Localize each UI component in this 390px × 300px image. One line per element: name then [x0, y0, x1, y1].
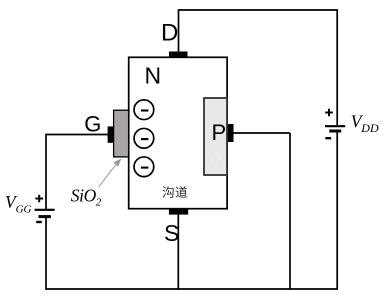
svg-text:S: S	[164, 220, 179, 246]
oxide layer SiO2	[114, 110, 129, 157]
svg-text:GG: GG	[16, 203, 32, 215]
svg-text:2: 2	[96, 197, 102, 209]
terminal tab S	[169, 208, 188, 214]
wire: P contact horizontal	[233, 132, 290, 134]
wire: VDD battery to bottom rail	[336, 131, 338, 289]
svg-text:SiO: SiO	[71, 185, 97, 205]
wire: P branch vertical down	[289, 133, 291, 289]
electron circle 2	[134, 128, 154, 148]
battery VDD plates	[325, 125, 345, 127]
svg-text:P: P	[212, 120, 227, 145]
wire: G horizontal	[46, 134, 109, 136]
battery VGG minus	[36, 221, 42, 223]
wire: VGG battery to bottom rail	[45, 217, 47, 290]
transistor body outline	[129, 57, 227, 208]
wire: D vertical to top rail	[178, 10, 180, 53]
electron circle 3	[134, 157, 154, 177]
SiO2 pointer arrow	[99, 163, 117, 187]
battery VDD minus	[325, 137, 331, 139]
terminal tab P-contact	[228, 124, 234, 142]
battery VGG plates	[35, 209, 55, 211]
P region	[204, 98, 227, 175]
wire: top rail horizontal	[178, 9, 338, 11]
battery VGG plus	[35, 195, 43, 203]
label channel (沟道)	[162, 186, 187, 198]
wire: bottom rail	[46, 288, 338, 290]
terminal tab D	[169, 52, 188, 58]
svg-text:D: D	[161, 20, 178, 47]
wire: right rail down to VDD battery	[336, 9, 338, 126]
battery VDD plus	[325, 109, 333, 117]
svg-text:G: G	[84, 111, 101, 136]
svg-text:N: N	[145, 63, 162, 89]
electron circle 1	[134, 100, 154, 120]
wire: left rail down to VGG battery	[45, 134, 47, 210]
terminal tab G	[108, 126, 114, 142]
svg-text:DD: DD	[360, 121, 379, 135]
wire: S vertical to bottom rail	[177, 213, 179, 290]
